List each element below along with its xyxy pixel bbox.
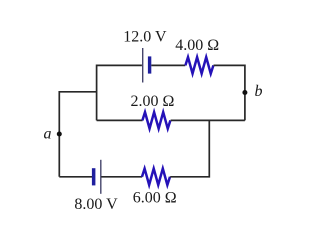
battery U-top 12V thin plate: [142, 48, 144, 83]
svg-text:a: a: [44, 126, 52, 143]
node b dot: [242, 90, 247, 95]
wire top-left segment: [97, 65, 142, 120]
resistor R 2.00 ohm: [142, 112, 170, 128]
resistor R 6.00 ohm: [142, 169, 170, 185]
svg-text:4.00 Ω: 4.00 Ω: [175, 37, 219, 54]
wire bottom-mid segment: [101, 176, 142, 178]
wire bottom-left segment: [59, 176, 92, 178]
wire middle-left segment: [97, 119, 143, 121]
battery U-bottom 8V thin plate: [100, 160, 102, 194]
svg-text:b: b: [255, 83, 263, 100]
svg-text:8.00 V: 8.00 V: [74, 196, 118, 213]
wire top-right segment: [214, 65, 245, 120]
svg-text:12.0 V: 12.0 V: [123, 29, 167, 46]
wire left connector: [59, 92, 96, 177]
svg-text:2.00 Ω: 2.00 Ω: [131, 93, 175, 110]
battery U-bottom 8V thick plate: [92, 168, 96, 185]
node a dot: [57, 132, 62, 137]
wire bottom-right segment: [170, 120, 209, 176]
resistor R 4.00 ohm: [185, 57, 213, 73]
wire middle-right segment: [171, 119, 245, 121]
wire top-mid segment: [151, 64, 185, 66]
battery U-top 12V thick plate: [148, 56, 151, 73]
svg-text:6.00 Ω: 6.00 Ω: [133, 190, 177, 207]
